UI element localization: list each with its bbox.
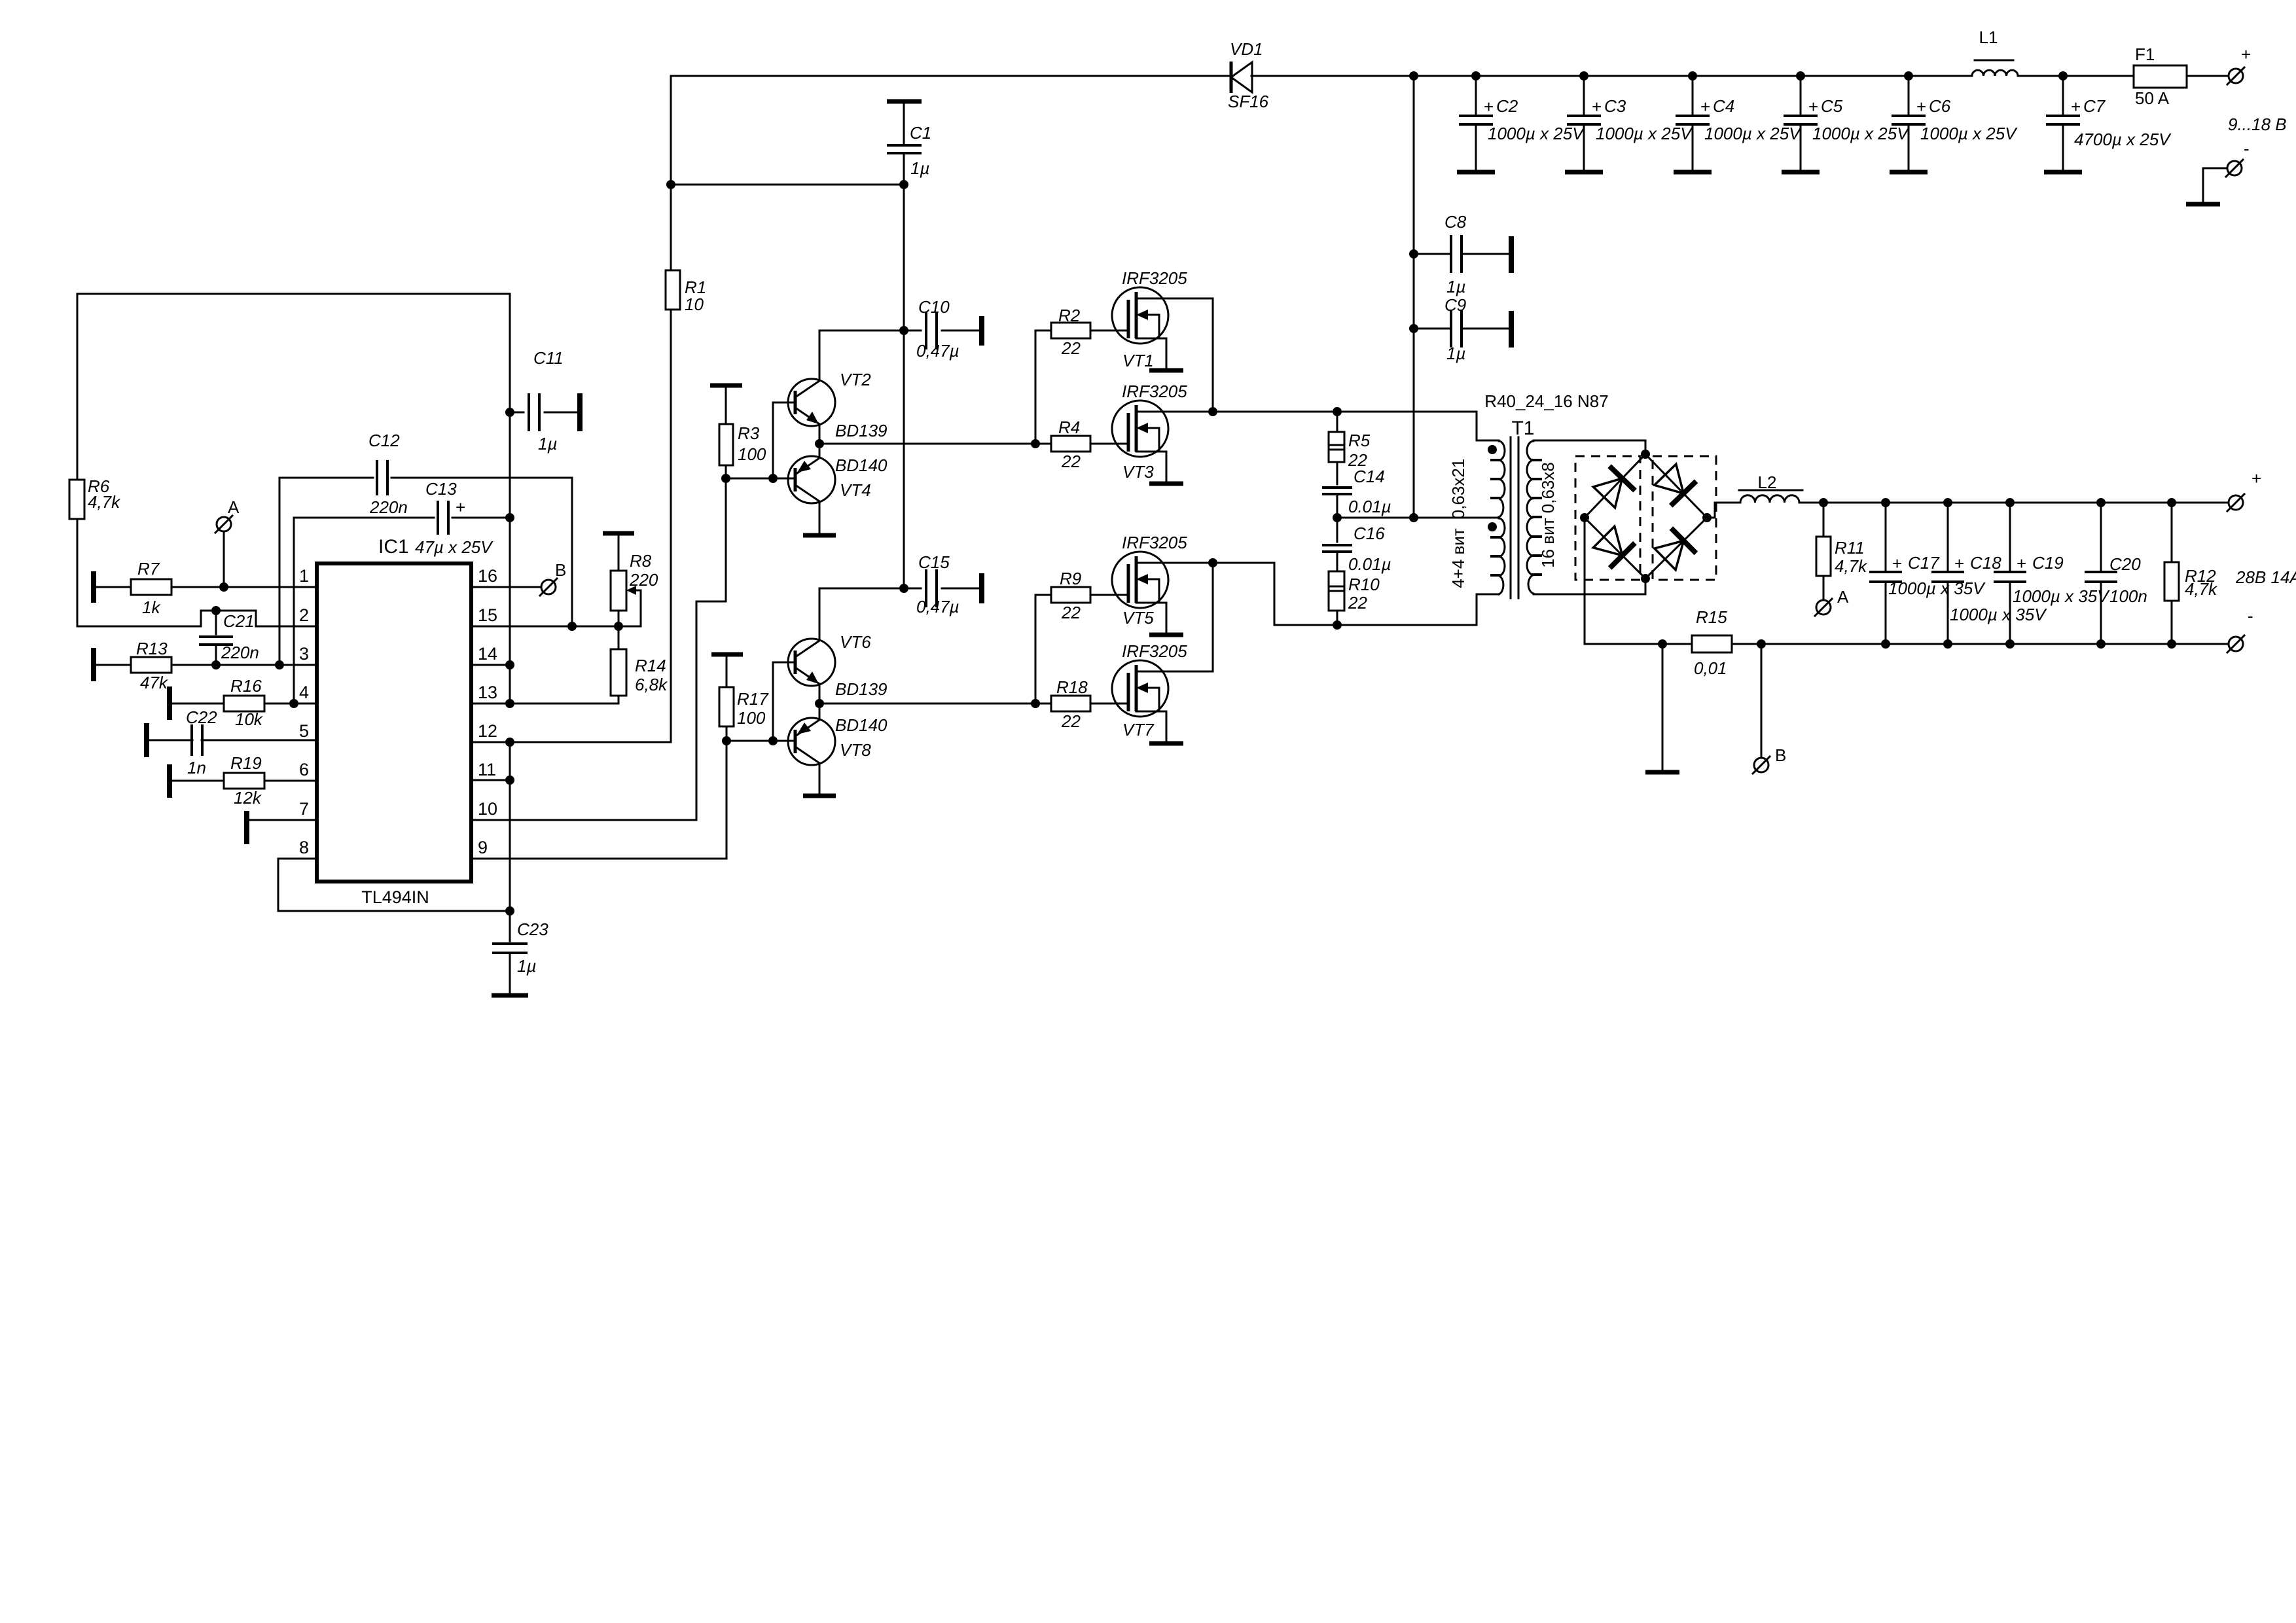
svg-text:4+4 вит: 4+4 вит [1448,528,1468,588]
wire snubber center to supply [1337,517,1414,519]
svg-text:C20: C20 [2109,554,2141,574]
node supply vertical junction [1409,71,1418,80]
svg-text:16 вит 0,63x8: 16 вит 0,63x8 [1538,462,1558,568]
wire C12 right riser to pin15 [571,478,573,626]
node R4 junction [1031,439,1040,448]
svg-text:5: 5 [299,721,309,741]
capacitor C21 220n [215,611,217,634]
bridge rectifier dashed box right [1653,456,1716,580]
svg-text:C7: C7 [2083,96,2106,116]
svg-text:4,7k: 4,7k [1835,556,1868,576]
node R8 bottom junction [614,622,623,631]
svg-text:100: 100 [737,708,766,728]
wire pin11 stub [471,779,510,781]
capacitor C4 [1692,76,1694,116]
node C9 junction [1409,324,1418,333]
svg-text:1µ: 1µ [910,158,929,178]
wire L2 to plus rail [1799,502,2228,504]
terminal + input battery [2229,69,2243,83]
diode bridge left-top [1585,454,1645,518]
op-amp IC1 TL494IN body [317,563,471,882]
wire pin7 to terminal bar [246,819,317,821]
node C18 bottom junction [1943,639,1952,649]
wire VT6 collector to C15 node [819,588,904,640]
svg-text:R18: R18 [1056,677,1088,697]
wire Vref vertical x779 upper [509,294,511,704]
fuse F1 50 A [2134,65,2187,88]
capacitor C16 0.01µ [1336,518,1338,542]
potentiometer R8 220 [603,531,634,536]
svg-text:1n: 1n [187,758,206,777]
svg-text:+: + [1916,97,1926,116]
svg-text:VT4: VT4 [840,480,871,500]
node pin4-C13 junction [289,699,298,708]
wire secondary top lead [1534,440,1645,454]
wire VT2 base jog [773,402,795,478]
node C6 junction [1904,71,1913,80]
svg-text:R19: R19 [230,753,262,773]
node pin12 junction [505,738,514,747]
node C4 junction [1688,71,1697,80]
wire R1 to pin12 Vcc [471,310,671,742]
svg-text:IRF3205: IRF3205 [1122,268,1187,288]
bridge rectifier dashed box left [1575,456,1640,580]
transformer T1 secondary winding [1527,441,1534,594]
node C17 top junction [1881,498,1890,507]
wire pin8 loop under IC to Vcc net [278,859,510,911]
capacitor C6 [1908,76,1910,116]
svg-text:C14: C14 [1354,467,1385,486]
diode bridge left-bottom [1585,518,1645,579]
svg-text:BD140: BD140 [835,455,888,475]
node R1-C1 junction [666,180,675,189]
transistor VT3 IRF3205 [1112,401,1168,457]
node A-pin1 junction [219,582,228,592]
svg-text:10: 10 [685,294,704,314]
node snubber center junction [1333,513,1342,522]
node VT2 base jog junction [768,474,778,483]
resistor R12 4,7k [2171,503,2173,562]
wire emitters to R2 R4 node [819,443,1035,445]
wire primary top lead [1477,412,1499,440]
svg-text:R40_24_16 N87: R40_24_16 N87 [1484,391,1608,411]
svg-text:VT2: VT2 [840,370,871,389]
svg-text:0.01µ: 0.01µ [1348,554,1391,574]
node ground stem junction [1658,639,1667,649]
wire minus rail left segment [1585,643,1692,645]
svg-text:R4: R4 [1058,418,1080,437]
capacitor C15 0,47µ [904,588,921,590]
ground VT8 [803,794,836,798]
svg-text:1000µ x 35V: 1000µ x 35V [2013,586,2110,606]
transistor VT4 BD140 [788,456,835,503]
svg-text:15: 15 [478,605,497,625]
svg-text:R9: R9 [1060,569,1081,588]
wire pin15 net [471,626,641,628]
svg-text:-: - [2248,606,2253,626]
wire primary bottom lead [1477,594,1499,625]
svg-text:13: 13 [478,683,497,702]
wire C1 node down to C10 node [903,185,905,588]
node R12 top junction [2167,498,2176,507]
svg-text:C6: C6 [1929,96,1951,116]
svg-text:10: 10 [478,799,497,819]
wire VT6 base jog [773,662,795,741]
capacitor C22 1n [144,723,149,757]
node C21 top junction [211,606,221,615]
capacitor C1 1µ [887,99,922,104]
svg-text:+: + [1592,97,1602,116]
svg-text:IRF3205: IRF3205 [1122,533,1187,552]
resistor R2 22 [1035,330,1051,444]
transistor VT1 IRF3205 [1112,287,1168,344]
node emitters VT6 VT8 [819,684,821,720]
wire pin16 to terminal B [471,586,541,588]
svg-text:BD139: BD139 [835,421,888,440]
svg-text:C19: C19 [2032,553,2064,573]
svg-text:1000µ x 25V: 1000µ x 25V [1812,124,1910,143]
svg-text:22: 22 [1348,593,1367,613]
resistor R7 1k [91,571,96,603]
svg-text:9...18 В: 9...18 В [2228,115,2287,134]
node C15 junction [899,584,908,593]
wire R19 to pin6 [264,780,317,782]
capacitor C19 1000µ x 35V [2009,503,2011,572]
svg-text:VT6: VT6 [840,632,871,652]
svg-text:1: 1 [299,566,309,586]
node pin13 junction [505,699,514,708]
wire VT8 collector to ground [819,763,821,794]
resistor R16 10k [167,687,172,720]
svg-text:+: + [2071,97,2081,116]
svg-text:7: 7 [299,799,309,819]
node R17 base junction [722,736,731,745]
svg-text:VT8: VT8 [840,740,871,760]
transformer T1 core [1510,437,1512,598]
svg-text:C10: C10 [918,297,950,317]
node C2 junction [1471,71,1480,80]
node C8 junction [1409,249,1418,259]
transistor VT6 BD139 [788,639,835,686]
node C1 bottom junction [899,180,908,189]
svg-text:VT7: VT7 [1122,720,1155,740]
svg-text:B: B [1775,745,1786,765]
svg-text:R11: R11 [1835,538,1865,558]
svg-text:R17: R17 [737,689,769,709]
svg-text:4,7k: 4,7k [88,492,121,512]
svg-text:SF16: SF16 [1228,92,1269,111]
svg-text:9: 9 [478,838,488,857]
diode bridge top-right [1645,454,1707,518]
svg-text:C18: C18 [1970,553,2001,573]
wire top rail corner down to C1 node [670,76,672,185]
wire primary center tap [1414,517,1499,519]
wire secondary bottom lead [1534,579,1645,594]
svg-text:B: B [555,560,566,580]
terminal A sense [217,517,231,531]
svg-text:IRF3205: IRF3205 [1122,641,1187,661]
node C11 junction [505,408,514,417]
wire +12V top rail from C1 corner to VD1 [671,75,1231,77]
diode VD1 [1230,62,1233,93]
svg-text:16: 16 [478,566,497,586]
svg-text:1µ: 1µ [538,434,557,454]
node R3 base junction [721,474,730,483]
wire VT4 collector to ground [819,503,821,533]
svg-text:R14: R14 [635,656,666,675]
node primary bottom phase dot [1488,522,1497,531]
wire VT7 drain [1136,671,1213,673]
svg-text:L1: L1 [1979,27,1998,47]
wire driver bases VT2 VT4 [726,478,795,480]
svg-text:1µ: 1µ [1446,344,1465,363]
node R5 junction [1333,407,1342,416]
capacitor C17 1000µ x 35V [1885,503,1887,572]
capacitor C20 100n [2100,503,2102,572]
capacitor C8 1µ [1414,253,1451,255]
svg-text:4700µ x 25V: 4700µ x 25V [2074,130,2172,149]
wire bridge minus down to rail [1584,518,1586,644]
resistor R11 4,7k [1823,503,1825,537]
terminal B output sense [1754,758,1768,772]
svg-text:R13: R13 [136,639,168,658]
svg-text:R5: R5 [1348,431,1371,450]
resistor R4 22 [1035,443,1051,445]
node bridge right vertex [1702,513,1712,522]
svg-text:1µ: 1µ [517,956,536,976]
svg-text:4: 4 [299,683,309,702]
svg-text:C8: C8 [1444,212,1467,232]
capacitor C3 [1583,76,1585,116]
svg-text:14: 14 [478,644,497,664]
svg-text:4,7k: 4,7k [2185,579,2218,599]
node pin11 junction [505,776,514,785]
node B stem junction [1757,639,1766,649]
svg-text:220: 220 [629,570,658,590]
transformer T1 primary top winding [1499,441,1505,517]
wire R4 to VT3 gate [1090,443,1128,445]
resistor R17 100 [711,652,743,657]
svg-text:22: 22 [1061,452,1081,471]
svg-text:2: 2 [299,605,309,625]
svg-text:100n: 100n [2109,586,2147,606]
svg-text:+: + [1892,554,1902,573]
svg-text:R16: R16 [230,676,262,696]
resistor R10 22 [1329,571,1344,611]
transistor VT2 BD139 [788,379,835,426]
wire pin14 stub [471,664,510,666]
svg-text:F1: F1 [2135,45,2155,64]
capacitor C11 1µ [510,412,524,414]
svg-text:VT5: VT5 [1122,608,1154,628]
node VT5 VT7 drain junction [1208,558,1217,567]
wire R9 to VT5 gate [1090,594,1128,596]
svg-text:C3: C3 [1604,96,1626,116]
svg-text:47k: 47k [140,673,169,692]
svg-text:+: + [1808,97,1818,116]
wire R7 to pin1 [171,586,317,588]
capacitor C5 [1800,76,1802,116]
resistor R15 0,01 [1692,635,1732,652]
svg-text:220n: 220n [221,643,259,662]
svg-text:0,47µ: 0,47µ [916,597,960,616]
svg-text:1000µ x 25V: 1000µ x 25V [1704,124,1802,143]
wire C13 left riser to pin4 [293,518,295,704]
ground VT4 [803,533,836,538]
node C20 bottom junction [2096,639,2106,649]
node supply tap junction [1409,513,1418,522]
wire R18 to VT7 gate [1090,703,1128,705]
wire VT3 drain bus to transformer [1136,411,1477,413]
capacitor C12 220n [279,477,373,479]
svg-text:C13: C13 [425,479,457,499]
svg-text:C5: C5 [1821,96,1843,116]
svg-text:12: 12 [478,721,497,741]
svg-text:-: - [2244,139,2250,158]
svg-text:11: 11 [478,760,496,779]
svg-text:220n: 220n [369,497,408,517]
node pin14 junction [505,660,514,669]
svg-text:+: + [2251,469,2261,488]
wire feedback top from R6 to Vref vertical [77,293,510,295]
capacitor C18 1000µ x 35V [1947,503,1949,572]
terminal bar pin7 [244,811,249,844]
node pin3-C12 junction [275,660,284,669]
node C20 top junction [2096,498,2106,507]
resistor R18 22 [1035,703,1051,705]
node bridge bottom vertex [1641,574,1650,583]
svg-text:R10: R10 [1348,575,1380,594]
svg-text:0,63x21: 0,63x21 [1448,459,1468,520]
wire top rail from VD1 to L1 [1251,75,1972,77]
resistor R1 10 [670,185,672,270]
ground bar input minus [2186,202,2220,207]
wire R16 to pin4 [264,703,317,705]
wire B stem [1761,644,1763,758]
transistor VT8 BD140 [788,718,835,765]
svg-text:BD140: BD140 [835,715,888,735]
node C13 junction [505,513,514,522]
svg-text:1000µ x 25V: 1000µ x 25V [1488,124,1585,143]
wire C1 node horizontal [671,184,904,186]
node C21 bottom junction [211,660,221,669]
capacitor C2 [1475,76,1477,116]
capacitor C7 [2062,76,2064,116]
node C17 bottom junction [1881,639,1890,649]
terminal + output [2229,495,2243,510]
svg-text:C11: C11 [533,348,564,368]
svg-text:+: + [1700,97,1710,116]
svg-text:VT3: VT3 [1122,462,1154,482]
svg-text:10k: 10k [235,709,264,729]
ground bridge [1645,770,1679,775]
svg-text:C23: C23 [517,919,548,939]
svg-text:C17: C17 [1908,553,1940,573]
capacitor C23 1µ [509,911,511,941]
wire L1 to F1 [2018,75,2134,77]
node emitters VT2 VT4 [819,425,821,457]
svg-text:A: A [1837,587,1849,607]
svg-text:R7: R7 [137,559,160,579]
wire pin10 to upper driver base [471,478,726,820]
capacitor C14 0.01µ [1336,462,1338,484]
wire pin13 net [471,703,619,705]
svg-text:IC1: IC1 [378,536,409,558]
wire R6 to pin2 with jog over C21 [77,519,317,626]
node primary top phase dot [1488,445,1497,454]
svg-text:1k: 1k [142,597,161,617]
wire C12 left riser to pin3 [279,478,281,665]
svg-text:+: + [2241,45,2251,64]
wire R2 to VT1 gate [1090,330,1128,332]
svg-text:R3: R3 [738,423,760,443]
terminal B sense [541,580,556,594]
svg-text:C1: C1 [910,123,931,143]
node C19 top junction [2005,498,2015,507]
wire VT1 drain to bus [1136,298,1213,412]
node R11 junction [1819,498,1828,507]
wire R13 to pin3 [171,664,317,666]
svg-text:1000µ x 25V: 1000µ x 25V [1920,124,2018,143]
terminal - input battery [2227,161,2242,175]
node bridge top vertex [1641,450,1650,459]
ground C23 [492,993,528,998]
svg-text:50 A: 50 A [2135,88,2170,108]
svg-text:22: 22 [1061,711,1081,731]
terminal A output sense [1816,600,1831,615]
node bridge left vertex [1580,513,1589,522]
svg-text:22: 22 [1061,603,1081,622]
svg-text:28В 14А: 28В 14А [2235,567,2296,587]
svg-text:0,47µ: 0,47µ [916,341,960,361]
resistor R3 100 [710,383,742,388]
svg-text:C22: C22 [186,707,217,727]
capacitor C9 1µ [1414,328,1451,330]
svg-text:0.01µ: 0.01µ [1348,497,1391,516]
wire - terminal to ground [2203,168,2227,202]
node C7 junction [2058,71,2068,80]
svg-text:47µ x 25V: 47µ x 25V [415,537,493,557]
svg-text:C9: C9 [1444,295,1466,315]
transformer T1 primary bottom winding [1499,518,1505,594]
svg-text:+: + [1954,554,1964,573]
node C10 junction [899,326,908,335]
svg-text:R8: R8 [630,551,652,571]
capacitor C13 47µ polarized [294,517,434,519]
transistor VT7 IRF3205 [1112,660,1168,717]
wire pin9 to lower driver base [471,741,726,859]
wire A terminal to pin1 [223,531,225,587]
wire Vcc vertical x779 lower [509,742,511,911]
node R12 bottom junction [2167,639,2176,649]
svg-text:6: 6 [299,760,309,779]
resistor R6 4,7k [77,294,79,480]
svg-text:C16: C16 [1354,524,1385,543]
svg-text:C4: C4 [1713,96,1734,116]
svg-text:+: + [456,497,465,517]
wire emitters to R9 R18 node [819,703,1035,705]
diode bridge bottom-right [1645,518,1707,579]
svg-text:IRF3205: IRF3205 [1122,382,1187,401]
svg-text:C21: C21 [223,611,255,631]
wire minus rail to output terminal [1732,643,2228,645]
svg-text:6,8k: 6,8k [635,675,668,694]
svg-text:+: + [1484,97,1494,116]
node C19 bottom junction [2005,639,2015,649]
wire VT5 to VT7 drain vertical [1212,563,1214,671]
wire VT2 collector to C10 node [819,330,904,380]
svg-text:BD139: BD139 [835,679,888,699]
